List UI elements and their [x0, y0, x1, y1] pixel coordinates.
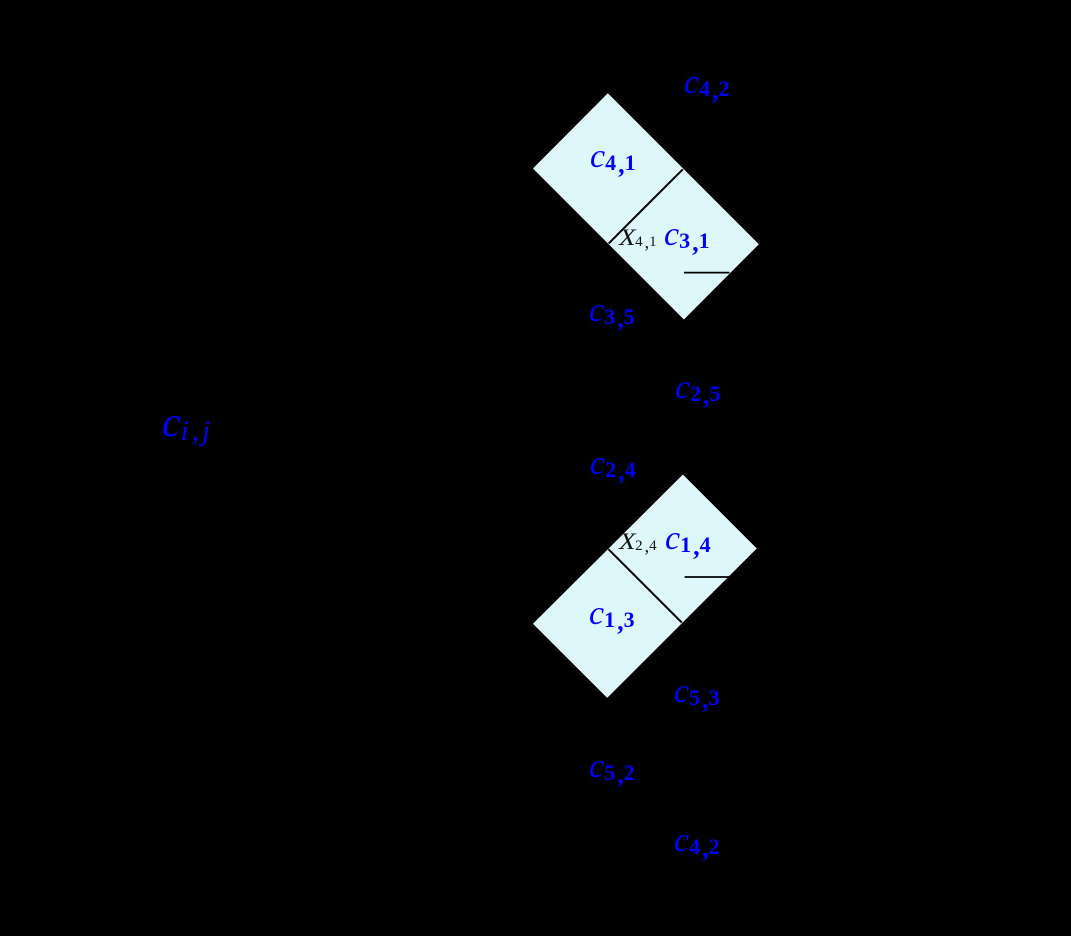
node c3,5 [589, 311, 637, 317]
node X4,1 [619, 238, 659, 241]
wire: junction line X24 between c14 and c13 [608, 549, 681, 622]
node X2,4 [619, 542, 659, 545]
node c4,1 [590, 157, 638, 163]
node c5,2 [589, 767, 637, 773]
wire: horizontal segment in c14 [685, 576, 731, 578]
node c4,2 (bottom) [674, 841, 722, 847]
wire: horizontal segment in c31 [684, 272, 730, 274]
domino D2 (cells c14,c13) [534, 475, 756, 697]
node c2,5 [675, 388, 723, 394]
node ci,j [162, 423, 213, 432]
domino D1 (cells c41,c31) [534, 94, 758, 319]
node c1,4 [665, 539, 713, 545]
node c3,1 [664, 235, 712, 241]
node c5,3 [674, 692, 722, 698]
node c1,3 [589, 614, 637, 620]
node c4,2 (top) [684, 83, 732, 89]
wire: junction line X41 between c41 and c31 [609, 169, 683, 243]
node c2,4 [590, 464, 638, 470]
